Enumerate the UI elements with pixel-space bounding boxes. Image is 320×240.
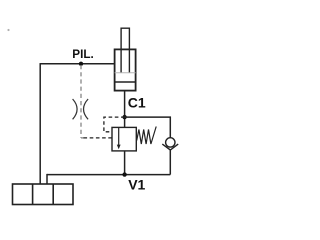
check valve seat — [162, 144, 178, 150]
orifice restrictor — [73, 99, 89, 119]
valve internal pilot dashed — [104, 117, 125, 132]
pilot line gray dashed corner — [81, 137, 84, 139]
svg-text:C1: C1 — [128, 94, 146, 110]
svg-text:V1: V1 — [128, 176, 145, 192]
cylinder body — [115, 49, 136, 90]
wire left vertical — [39, 63, 41, 184]
wire PIL horizontal — [40, 63, 114, 65]
cylinder rod — [121, 28, 129, 72]
pilot line gray dashed vertical — [80, 65, 82, 138]
svg-text:PIL.: PIL. — [72, 48, 93, 61]
wire branch to check valve — [125, 117, 171, 138]
cylinder piston — [115, 73, 136, 82]
junction dot V1 — [122, 172, 126, 176]
manifold block — [13, 184, 74, 205]
valve flow arrow — [117, 128, 121, 149]
wire C1 cylinder to valve — [124, 91, 126, 128]
counterbalance valve envelope — [112, 127, 136, 150]
wire V1 horizontal — [47, 174, 170, 176]
junction dot C1 branch — [122, 115, 126, 119]
junction dot PIL — [79, 62, 83, 66]
valve spring — [137, 127, 157, 145]
wire valve outlet to V1 — [124, 151, 126, 175]
wire check valve to V1 line — [169, 150, 171, 175]
wire V1 drop to manifold — [46, 174, 48, 184]
valve external pilot dashed stub — [84, 137, 113, 139]
speck — [7, 29, 9, 31]
check valve circle — [166, 138, 175, 147]
